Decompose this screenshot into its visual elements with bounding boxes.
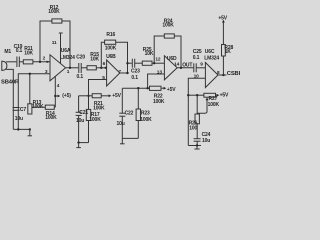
ground rail stage3 [122, 137, 138, 139]
wire bias3 horizontal [122, 87, 149, 89]
svg-text:C23: C23 [131, 69, 140, 75]
svg-text:LM324: LM324 [204, 55, 219, 61]
wire C19 to R11 [19, 61, 23, 63]
svg-text:100K: 100K [105, 46, 117, 52]
svg-text:U6D: U6D [167, 56, 177, 62]
ground rail stage4 [188, 145, 201, 147]
resistor R23 [136, 109, 140, 121]
wire U6B output riser [120, 63, 128, 73]
wire R15 to U6B pin6 [96, 67, 106, 69]
wire U6A output [66, 67, 79, 69]
svg-text:2: 2 [43, 55, 46, 61]
wire C24 bottom [196, 141, 198, 145]
svg-text:10u: 10u [76, 118, 84, 124]
wedge pin2 entry [47, 61, 50, 63]
wire R11 to U6A pin2 [33, 61, 50, 63]
wiper arrow R27 [197, 99, 207, 113]
junction at R12 tap [39, 61, 41, 63]
junction rail1 a [17, 128, 19, 130]
svg-text:5: 5 [102, 75, 105, 81]
junction rail2 [77, 141, 79, 143]
junction bias2 node [87, 95, 89, 97]
power arrow +5V (R21) [101, 95, 108, 97]
junction R24 right tap [180, 67, 182, 69]
svg-text:12: 12 [155, 56, 161, 62]
capacitor C21 [76, 111, 82, 113]
svg-text:0.1: 0.1 [77, 74, 84, 80]
svg-text:0.1: 0.1 [16, 48, 23, 54]
junction R24 left tap [153, 62, 155, 64]
svg-text:R23: R23 [141, 110, 150, 116]
resistor R11 [23, 60, 33, 64]
capacitor C7 [13, 107, 20, 109]
ground tick stage2 [76, 147, 81, 149]
junction pin6 edge [105, 67, 107, 69]
svg-text:100K: 100K [208, 102, 220, 108]
wire C23 to R25 [135, 62, 143, 64]
resistor R26 [195, 114, 199, 124]
microphone M1 [1, 61, 3, 71]
svg-text:+5V: +5V [220, 92, 229, 98]
wire R13 to R14 [32, 106, 45, 108]
wire R23 bottom [137, 121, 139, 139]
resistor R22 [150, 86, 162, 90]
svg-text:0.1: 0.1 [131, 75, 138, 81]
resistor R12 feedback loop [40, 21, 70, 68]
wire U6A pin3 line [18, 74, 50, 130]
capacitor C23 [131, 59, 133, 68]
wire R23 top lead [137, 88, 139, 109]
ground stub stage4 [196, 146, 198, 150]
svg-text:11: 11 [52, 40, 57, 46]
svg-text:SB40R: SB40R [1, 79, 20, 85]
svg-text:10K: 10K [24, 51, 33, 57]
junction rail1 b [29, 128, 31, 130]
svg-text:7: 7 [118, 69, 121, 75]
junction R28 bottom [222, 74, 224, 76]
svg-text:U6C: U6C [205, 49, 215, 55]
svg-text:OUT: OUT [182, 62, 192, 68]
svg-text:14: 14 [174, 62, 180, 68]
resistor R14 [45, 105, 54, 109]
svg-text:U6A: U6A [61, 48, 71, 54]
resistor R28 [222, 45, 226, 57]
svg-text:U6B: U6B [106, 54, 116, 60]
svg-text:1K: 1K [225, 49, 232, 55]
op-amp U6C [205, 63, 218, 88]
resistor R13 [28, 104, 32, 114]
svg-text:M1: M1 [4, 49, 11, 55]
op-amp U6D [164, 56, 177, 80]
svg-text:10K: 10K [145, 51, 154, 57]
op-amp U6A [50, 55, 66, 81]
capacitor C22 [119, 112, 125, 114]
svg-text:9: 9 [200, 62, 203, 68]
junction R26 top [196, 94, 198, 96]
svg-text:6: 6 [103, 61, 106, 67]
svg-text:100K: 100K [93, 106, 105, 112]
wire to C23 [128, 62, 132, 64]
svg-text:100K: 100K [162, 23, 174, 29]
ground rail stage1 [13, 128, 30, 130]
svg-text:100: 100 [189, 125, 197, 131]
svg-text:100K: 100K [48, 9, 60, 15]
svg-text:100K: 100K [140, 117, 152, 123]
svg-text:C7: C7 [20, 107, 26, 113]
capacitor C20 [78, 63, 80, 73]
ground stub stage3 [121, 138, 123, 143]
junction rail4 [196, 144, 198, 146]
ground stub stage2 [78, 143, 80, 148]
svg-text:0.1: 0.1 [193, 55, 200, 61]
resistor R17 [86, 109, 90, 120]
potentiometer R27 [204, 93, 216, 97]
junction pot tap [187, 94, 189, 96]
wire R26 to C24 [196, 124, 198, 139]
svg-text:100K: 100K [89, 117, 101, 123]
svg-text:10K: 10K [90, 56, 99, 62]
svg-text:+5V: +5V [167, 87, 176, 93]
resistor R25 [142, 61, 152, 65]
wire U6C output [218, 74, 227, 76]
resistor R16 feedback loop [101, 42, 127, 73]
svg-text:10u: 10u [117, 121, 125, 127]
wire mic bottom lead [6, 69, 13, 129]
junction stage3 tap [126, 62, 128, 64]
wire R25 to U6D pin12 [152, 62, 164, 64]
svg-text:+5V: +5V [218, 15, 227, 21]
wire C22 branch [121, 88, 123, 138]
wire C25 to U6C pin9 [196, 67, 205, 69]
op-amp U6B [107, 60, 120, 86]
wire R28 upper lead [222, 22, 224, 45]
ground tick stage4 [194, 148, 199, 150]
svg-text:C22: C22 [125, 111, 134, 117]
capacitor C19 [16, 57, 18, 68]
svg-text:100K: 100K [153, 99, 165, 105]
ground stub stage1 [29, 129, 31, 135]
resistor R24 feedback loop [154, 36, 181, 68]
wire U6D output [177, 67, 193, 69]
wire R17 bottom [88, 121, 90, 143]
ground rail stage2 [79, 142, 89, 144]
wire U6B pin5 [89, 80, 107, 110]
capacitor C24 [194, 138, 201, 140]
power arrow (+5) [55, 95, 57, 97]
ground tick stage3 [120, 143, 125, 145]
svg-text:C20: C20 [76, 54, 85, 60]
junction +5 tap [54, 95, 56, 97]
wire C21 branch [78, 96, 80, 143]
junction pin13 riser [146, 87, 148, 89]
capacitor C25 [193, 63, 195, 72]
power arrow +5V (R22) [161, 87, 164, 89]
svg-text:C21: C21 [79, 110, 88, 116]
wire R28 lower lead [222, 56, 224, 75]
wire U6C pin10 [188, 78, 205, 145]
power arrow +5V (top) [222, 20, 225, 23]
wire mic top lead [6, 61, 16, 63]
junction R16 left tap [100, 67, 102, 69]
svg-text:R16: R16 [106, 32, 115, 38]
svg-text:4: 4 [57, 83, 60, 89]
svg-text:10u: 10u [202, 138, 210, 144]
resistor R21 [92, 94, 101, 98]
svg-text:+5V: +5V [112, 93, 121, 99]
svg-text:LM324: LM324 [60, 55, 75, 61]
junction R13 top [29, 73, 31, 75]
pin 11 stub [60, 33, 62, 64]
resistor R15 [87, 66, 96, 70]
wire U6D pin13 [148, 74, 165, 88]
junction R12 right tap [69, 67, 71, 69]
svg-text:(+5): (+5) [62, 93, 71, 99]
svg-text:1: 1 [67, 69, 70, 75]
wire R26 branch [196, 95, 198, 114]
wire U6A pin4 riser [54, 76, 56, 107]
junction U6B out [126, 72, 128, 74]
wire R14 right to +5 riser [54, 106, 55, 108]
wire bias2 horizontal [79, 95, 93, 97]
ground tick stage1 [28, 135, 32, 137]
svg-text:10u: 10u [15, 116, 23, 122]
power arrow +5V (R27) [216, 94, 217, 96]
svg-text:CSBI: CSBI [227, 71, 240, 77]
junction R23 tap [137, 87, 139, 89]
wire pot horizontal [188, 94, 204, 96]
svg-text:100K: 100K [45, 115, 57, 121]
wire C20 to R15 [81, 67, 87, 69]
wire R13 top lead to pin3 line [29, 74, 31, 104]
